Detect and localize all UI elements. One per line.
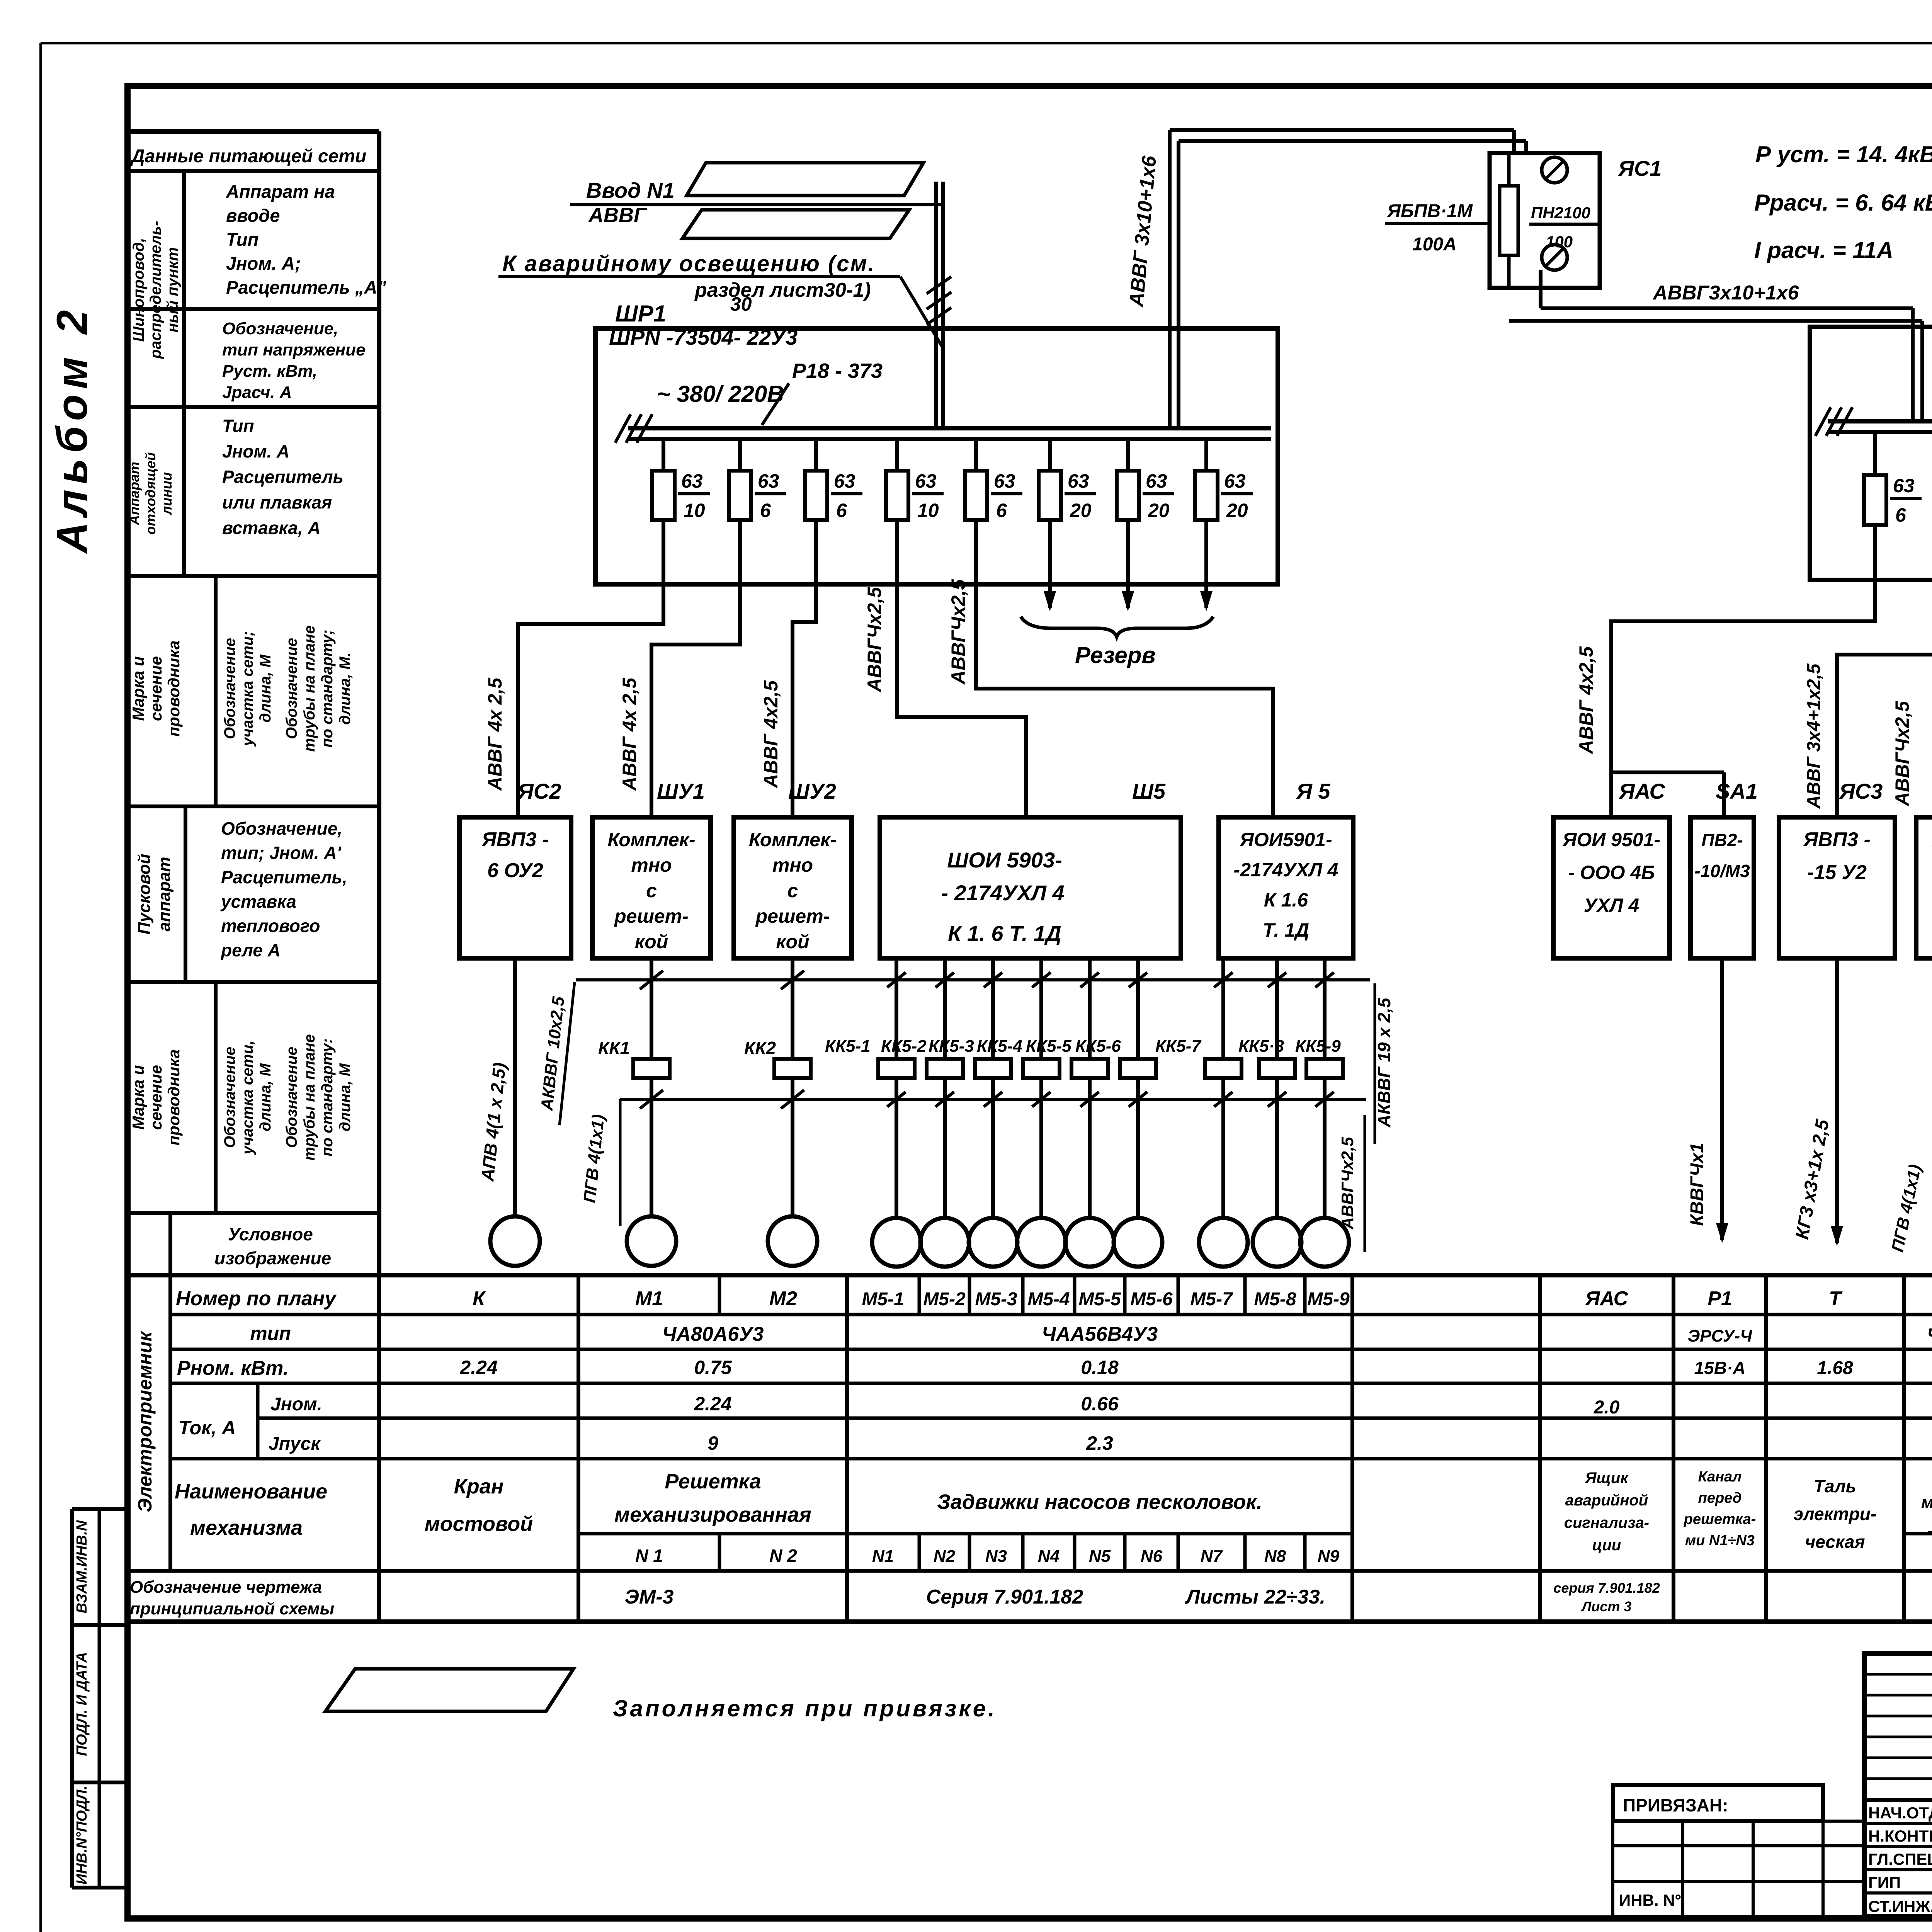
svg-text:КК5-6: КК5-6 bbox=[1075, 1037, 1121, 1056]
svg-text:изображение: изображение bbox=[214, 1248, 331, 1268]
svg-text:АВВГЧх2,5: АВВГЧх2,5 bbox=[947, 579, 969, 685]
svg-text:Обозначение чертежа: Обозначение чертежа bbox=[130, 1578, 322, 1597]
svg-text:Обозначение: Обозначение bbox=[283, 638, 300, 739]
svg-text:20: 20 bbox=[1148, 500, 1170, 521]
svg-text:Т. 1Д: Т. 1Д bbox=[1263, 919, 1309, 941]
svg-text:ЧАА56В4У3: ЧАА56В4У3 bbox=[1042, 1323, 1158, 1345]
svg-text:М5-8: М5-8 bbox=[1254, 1289, 1296, 1310]
svg-text:30: 30 bbox=[730, 293, 752, 315]
svg-text:Марка и: Марка и bbox=[129, 1065, 147, 1130]
svg-text:Условное: Условное bbox=[228, 1224, 313, 1244]
svg-text:мостовой: мостовой bbox=[425, 1512, 533, 1536]
svg-text:ИНВ.N°ПОДЛ.: ИНВ.N°ПОДЛ. bbox=[74, 1786, 90, 1884]
svg-text:М5-6: М5-6 bbox=[1130, 1289, 1173, 1310]
svg-text:Марка и: Марка и bbox=[129, 656, 147, 721]
svg-text:6: 6 bbox=[760, 500, 771, 521]
svg-text:0.66: 0.66 bbox=[1081, 1393, 1119, 1415]
svg-text:Расцепитель,: Расцепитель, bbox=[221, 867, 347, 887]
svg-text:-10/М3: -10/М3 bbox=[1694, 861, 1750, 881]
svg-text:Серия 7.901.182: Серия 7.901.182 bbox=[926, 1586, 1083, 1608]
svg-text:Канал: Канал bbox=[1698, 1469, 1742, 1485]
svg-text:ЯС3: ЯС3 bbox=[1838, 779, 1883, 803]
svg-text:100А: 100А bbox=[1412, 234, 1457, 255]
svg-text:ЯОИ5901-: ЯОИ5901- bbox=[1239, 829, 1332, 850]
svg-text:ЧА80А 6У3: ЧА80А 6У3 bbox=[1927, 1325, 1932, 1345]
svg-text:63: 63 bbox=[681, 470, 703, 492]
svg-text:Тип: Тип bbox=[226, 229, 259, 250]
svg-text:ПВ2-: ПВ2- bbox=[1701, 830, 1743, 850]
svg-text:с: с bbox=[646, 880, 657, 901]
svg-text:Обозначение: Обозначение bbox=[283, 1047, 300, 1148]
svg-text:Jрасч. А: Jрасч. А bbox=[222, 383, 292, 402]
svg-text:Ящик: Ящик bbox=[1585, 1469, 1629, 1486]
svg-text:Комплек-: Комплек- bbox=[749, 829, 837, 850]
svg-text:~ 380/ 220В: ~ 380/ 220В bbox=[657, 381, 784, 407]
svg-text:Т: Т bbox=[1829, 1287, 1843, 1310]
svg-text:Тип: Тип bbox=[222, 416, 254, 436]
svg-text:Номер по плану: Номер по плану bbox=[176, 1287, 337, 1310]
svg-text:63: 63 bbox=[1068, 470, 1089, 492]
svg-text:Рном. кВт.: Рном. кВт. bbox=[177, 1357, 289, 1379]
svg-text:проводника: проводника bbox=[165, 640, 183, 736]
svg-text:15В·А: 15В·А bbox=[1694, 1358, 1746, 1378]
svg-text:Р1: Р1 bbox=[1708, 1287, 1732, 1310]
svg-text:ЯБПВ·1М: ЯБПВ·1М bbox=[1386, 201, 1473, 221]
svg-text:М5-3: М5-3 bbox=[975, 1289, 1017, 1310]
svg-text:решетка-: решетка- bbox=[1684, 1511, 1756, 1527]
svg-text:тип; Jном. А': тип; Jном. А' bbox=[221, 843, 342, 863]
svg-text:М5-5: М5-5 bbox=[1078, 1289, 1121, 1310]
svg-text:10: 10 bbox=[917, 500, 939, 521]
svg-text:N6: N6 bbox=[1141, 1547, 1163, 1566]
svg-text:К аварийному освещению (см.: К аварийному освещению (см. bbox=[502, 251, 875, 276]
svg-text:по стандарту;: по стандарту; bbox=[319, 629, 336, 748]
svg-text:ПН2100: ПН2100 bbox=[1531, 204, 1590, 222]
svg-text:Альбом 2: Альбом 2 bbox=[48, 304, 96, 554]
svg-text:Таль: Таль bbox=[1814, 1476, 1856, 1496]
svg-text:УХЛ 4: УХЛ 4 bbox=[1584, 895, 1639, 916]
svg-text:Задвижки насосов песколовок.: Задвижки насосов песколовок. bbox=[937, 1490, 1262, 1514]
svg-text:20: 20 bbox=[1070, 500, 1092, 521]
svg-text:М5-4: М5-4 bbox=[1027, 1289, 1070, 1310]
svg-text:ШУ1: ШУ1 bbox=[657, 779, 705, 803]
svg-text:ческая: ческая bbox=[1805, 1532, 1865, 1552]
svg-text:Обозначение: Обозначение bbox=[221, 1047, 238, 1148]
svg-text:отходящей: отходящей bbox=[143, 452, 158, 534]
svg-text:Н.КОНТР: Н.КОНТР bbox=[1868, 1827, 1932, 1845]
svg-text:6 ОУ2: 6 ОУ2 bbox=[487, 859, 543, 882]
svg-text:Ш5: Ш5 bbox=[1132, 779, 1166, 803]
svg-text:ШРN -73504- 22У3: ШРN -73504- 22У3 bbox=[609, 325, 798, 349]
svg-text:реле А: реле А bbox=[220, 940, 281, 960]
svg-text:механизиро-: механизиро- bbox=[1921, 1493, 1932, 1512]
svg-text:Ток, А: Ток, А bbox=[179, 1417, 236, 1439]
svg-text:Аппарат на: Аппарат на bbox=[226, 181, 335, 202]
svg-text:6: 6 bbox=[996, 500, 1007, 521]
svg-text:кой: кой bbox=[776, 931, 809, 952]
svg-text:0.18: 0.18 bbox=[1081, 1357, 1119, 1378]
svg-text:по стандарту:: по стандарту: bbox=[319, 1038, 336, 1156]
svg-text:N9: N9 bbox=[1318, 1547, 1340, 1566]
svg-text:аппарат: аппарат bbox=[155, 857, 174, 931]
svg-text:63: 63 bbox=[834, 470, 855, 492]
svg-text:КВВГЧх1: КВВГЧх1 bbox=[1687, 1143, 1708, 1226]
svg-text:тип: тип bbox=[250, 1323, 291, 1344]
svg-text:К 1.6: К 1.6 bbox=[1264, 889, 1308, 911]
svg-text:ный пункт: ный пункт bbox=[164, 247, 181, 333]
svg-text:КК5-7: КК5-7 bbox=[1155, 1037, 1202, 1056]
svg-text:Обозначение,: Обозначение, bbox=[221, 818, 342, 838]
svg-text:М5-1: М5-1 bbox=[862, 1289, 904, 1310]
svg-text:6: 6 bbox=[836, 500, 847, 521]
svg-text:ШОИ 5903-: ШОИ 5903- bbox=[947, 848, 1062, 872]
svg-text:ГЛ.СПЕЦ.: ГЛ.СПЕЦ. bbox=[1868, 1850, 1932, 1868]
svg-text:длина, М: длина, М bbox=[257, 654, 274, 723]
svg-text:участка сети,: участка сети, bbox=[239, 1040, 256, 1155]
svg-text:ЯВП3 -: ЯВП3 - bbox=[1803, 828, 1871, 851]
svg-text:механизма: механизма bbox=[190, 1516, 303, 1539]
svg-text:Заполняется при привязке.: Заполняется при привязке. bbox=[613, 1696, 997, 1721]
svg-text:сечение: сечение bbox=[147, 1065, 165, 1130]
svg-text:Обозначение: Обозначение bbox=[221, 638, 238, 739]
svg-text:перед: перед bbox=[1698, 1490, 1742, 1506]
svg-text:АВВГ: АВВГ bbox=[588, 204, 648, 227]
svg-text:- ООО 4Б: - ООО 4Б bbox=[1568, 862, 1655, 883]
svg-text:ЯС2: ЯС2 bbox=[517, 779, 561, 803]
svg-text:63: 63 bbox=[1224, 470, 1246, 492]
svg-text:АВВГЧх2,5: АВВГЧх2,5 bbox=[1891, 701, 1913, 807]
svg-text:решет-: решет- bbox=[614, 905, 689, 927]
svg-text:ЯАС: ЯАС bbox=[1585, 1287, 1629, 1310]
svg-text:63: 63 bbox=[915, 470, 937, 492]
svg-text:ГИП: ГИП bbox=[1868, 1873, 1901, 1891]
svg-text:-2174УХЛ 4: -2174УХЛ 4 bbox=[1233, 859, 1338, 881]
svg-text:тно: тно bbox=[631, 854, 672, 876]
svg-text:проводника: проводника bbox=[165, 1049, 183, 1145]
svg-text:ИНВ. N°: ИНВ. N° bbox=[1619, 1891, 1681, 1909]
svg-text:Jном. А: Jном. А bbox=[222, 441, 289, 461]
svg-text:ми N1÷N3: ми N1÷N3 bbox=[1685, 1532, 1755, 1549]
svg-text:или плавкая: или плавкая bbox=[222, 492, 332, 512]
svg-text:Р18 - 373: Р18 - 373 bbox=[792, 359, 883, 383]
svg-text:трубы на плане: трубы на плане bbox=[301, 625, 318, 752]
svg-text:АВВГЧх2,5: АВВГЧх2,5 bbox=[864, 587, 885, 693]
svg-text:N 1: N 1 bbox=[635, 1546, 663, 1566]
svg-text:63: 63 bbox=[758, 470, 779, 492]
svg-text:SA1: SA1 bbox=[1716, 779, 1758, 803]
svg-text:ВЗАМ.ИНВ.N: ВЗАМ.ИНВ.N bbox=[74, 1520, 90, 1613]
svg-text:вставка, А: вставка, А bbox=[222, 518, 321, 538]
svg-text:ЧА80А6У3: ЧА80А6У3 bbox=[662, 1323, 764, 1345]
svg-text:ШУ2: ШУ2 bbox=[788, 779, 836, 803]
svg-text:сечение: сечение bbox=[147, 656, 165, 721]
svg-text:Я 5: Я 5 bbox=[1296, 779, 1330, 803]
svg-text:Комплек-: Комплек- bbox=[607, 829, 695, 850]
svg-text:длина, М: длина, М bbox=[337, 1063, 354, 1131]
svg-text:N8: N8 bbox=[1264, 1547, 1286, 1566]
svg-text:ПРИВЯЗАН:: ПРИВЯЗАН: bbox=[1623, 1795, 1728, 1815]
svg-text:10: 10 bbox=[684, 500, 705, 521]
svg-text:КК5-4: КК5-4 bbox=[977, 1037, 1022, 1056]
svg-text:М5-9: М5-9 bbox=[1307, 1289, 1350, 1310]
svg-text:М2: М2 bbox=[769, 1287, 797, 1310]
svg-text:Jпуск: Jпуск bbox=[269, 1434, 321, 1454]
svg-text:длина, М: длина, М bbox=[257, 1063, 274, 1131]
svg-text:Руст. кВт,: Руст. кВт, bbox=[222, 362, 317, 381]
svg-text:2.3: 2.3 bbox=[1086, 1432, 1113, 1454]
svg-text:серия 7.901.182: серия 7.901.182 bbox=[1553, 1580, 1660, 1596]
svg-text:Данные питающей сети: Данные питающей сети bbox=[130, 146, 366, 167]
svg-text:механизированная: механизированная bbox=[614, 1503, 811, 1526]
svg-text:КК5-3: КК5-3 bbox=[929, 1037, 974, 1056]
svg-text:ЭРСУ-Ч: ЭРСУ-Ч bbox=[1688, 1327, 1753, 1345]
svg-text:ШР1: ШР1 bbox=[615, 301, 666, 327]
svg-text:Пусковой: Пусковой bbox=[135, 854, 154, 934]
svg-text:аварийной: аварийной bbox=[1565, 1492, 1648, 1509]
svg-text:АВВГ 3х4+1х2,5: АВВГ 3х4+1х2,5 bbox=[1804, 663, 1824, 809]
svg-text:АВВГ3х10+1х6: АВВГ3х10+1х6 bbox=[1652, 282, 1799, 304]
svg-text:ции: ции bbox=[1592, 1537, 1621, 1554]
svg-text:Решетка: Решетка bbox=[665, 1470, 761, 1493]
svg-text:линии: линии bbox=[159, 472, 175, 515]
svg-text:КК1: КК1 bbox=[598, 1038, 630, 1058]
svg-text:Jном. А;: Jном. А; bbox=[226, 253, 301, 274]
svg-text:ЯАС: ЯАС bbox=[1618, 779, 1665, 803]
svg-text:Расцепитель „А”: Расцепитель „А” bbox=[226, 277, 386, 298]
svg-text:Наименование: Наименование bbox=[175, 1480, 327, 1503]
svg-text:кой: кой bbox=[635, 931, 668, 952]
svg-text:- 2174УХЛ 4: - 2174УХЛ 4 bbox=[941, 881, 1064, 905]
svg-text:электри-: электри- bbox=[1794, 1504, 1877, 1524]
svg-text:КК2: КК2 bbox=[744, 1038, 776, 1058]
svg-text:1.68: 1.68 bbox=[1817, 1358, 1853, 1378]
svg-text:Аппарат: Аппарат bbox=[126, 462, 142, 526]
svg-text:АВВГ 4х2,5: АВВГ 4х2,5 bbox=[1575, 646, 1597, 755]
svg-text:6: 6 bbox=[1895, 504, 1906, 526]
svg-text:раздел лист30-1): раздел лист30-1) bbox=[694, 279, 871, 301]
svg-text:АВВГ 4х2,5: АВВГ 4х2,5 bbox=[760, 680, 782, 789]
svg-text:АВВГ 4х 2,5: АВВГ 4х 2,5 bbox=[484, 677, 506, 791]
svg-text:Обозначение,: Обозначение, bbox=[222, 319, 338, 338]
svg-text:Листы 22÷33.: Листы 22÷33. bbox=[1185, 1586, 1325, 1608]
svg-text:принципиальной схемы: принципиальной схемы bbox=[130, 1599, 334, 1618]
svg-text:Кран: Кран bbox=[454, 1475, 504, 1498]
svg-text:КК5-9: КК5-9 bbox=[1295, 1037, 1341, 1056]
svg-text:АВВГ 4х 2,5: АВВГ 4х 2,5 bbox=[619, 677, 640, 791]
svg-text:уставка: уставка bbox=[220, 891, 296, 912]
svg-text:Резерв: Резерв bbox=[1075, 642, 1156, 668]
svg-text:АВВГЧх2,5: АВВГЧх2,5 bbox=[1338, 1137, 1357, 1230]
svg-text:тип напряжение: тип напряжение bbox=[222, 340, 366, 359]
svg-text:Лист 3: Лист 3 bbox=[1581, 1599, 1632, 1614]
svg-text:длина, М.: длина, М. bbox=[337, 652, 354, 724]
svg-text:2.24: 2.24 bbox=[459, 1357, 497, 1378]
svg-text:решет-: решет- bbox=[755, 905, 830, 927]
svg-text:100: 100 bbox=[1546, 233, 1573, 251]
svg-text:КК5·8: КК5·8 bbox=[1238, 1037, 1284, 1056]
svg-text:Расцепитель: Расцепитель bbox=[222, 467, 344, 487]
svg-text:2.0: 2.0 bbox=[1594, 1397, 1620, 1418]
svg-text:0.75: 0.75 bbox=[694, 1357, 732, 1378]
svg-text:трубы на плане: трубы на плане bbox=[301, 1034, 318, 1160]
svg-text:КК5-1: КК5-1 bbox=[825, 1037, 871, 1056]
svg-text:-15 У2: -15 У2 bbox=[1807, 861, 1867, 884]
svg-text:N 2: N 2 bbox=[769, 1546, 797, 1566]
svg-text:участка сети;: участка сети; bbox=[239, 631, 256, 747]
svg-text:сигнализа-: сигнализа- bbox=[1564, 1514, 1649, 1531]
svg-text:63: 63 bbox=[1893, 475, 1915, 497]
svg-text:9: 9 bbox=[707, 1432, 718, 1454]
svg-text:63: 63 bbox=[994, 470, 1015, 492]
svg-text:Шинопровод,: Шинопровод, bbox=[130, 238, 147, 342]
svg-text:N7: N7 bbox=[1201, 1547, 1223, 1566]
svg-text:N4: N4 bbox=[1038, 1547, 1060, 1566]
svg-text:N2: N2 bbox=[934, 1547, 956, 1566]
svg-text:К: К bbox=[473, 1287, 486, 1310]
svg-text:ЯОИ 9501-: ЯОИ 9501- bbox=[1562, 829, 1660, 850]
svg-text:Ррасч. = 6. 64 кВт.: Ррасч. = 6. 64 кВт. bbox=[1754, 190, 1932, 216]
svg-text:тно: тно bbox=[772, 854, 813, 876]
svg-text:КК5-2: КК5-2 bbox=[881, 1037, 927, 1056]
svg-text:Р уст. = 14. 4кВт.: Р уст. = 14. 4кВт. bbox=[1755, 141, 1932, 167]
svg-text:М5-7: М5-7 bbox=[1190, 1289, 1233, 1310]
svg-text:СТ.ИНЖ.: СТ.ИНЖ. bbox=[1868, 1897, 1932, 1915]
svg-text:63: 63 bbox=[1146, 470, 1167, 492]
svg-text:Jном.: Jном. bbox=[270, 1394, 322, 1415]
svg-text:вводе: вводе bbox=[226, 205, 280, 226]
svg-text:ЯВП3 -: ЯВП3 - bbox=[481, 828, 549, 851]
svg-text:М1: М1 bbox=[635, 1287, 663, 1310]
svg-text:АКВВГ 19 х 2,5: АКВВГ 19 х 2,5 bbox=[1374, 997, 1394, 1128]
svg-text:N5: N5 bbox=[1089, 1547, 1111, 1566]
svg-text:I расч. = 11А: I расч. = 11А bbox=[1754, 237, 1893, 263]
svg-text:20: 20 bbox=[1226, 500, 1248, 521]
svg-text:К 1. 6 Т. 1Д: К 1. 6 Т. 1Д bbox=[948, 921, 1061, 946]
svg-text:теплового: теплового bbox=[221, 916, 320, 936]
svg-text:с: с bbox=[787, 880, 798, 901]
svg-text:ПОДЛ. И ДАТА: ПОДЛ. И ДАТА bbox=[74, 1652, 90, 1756]
svg-text:распределитель-: распределитель- bbox=[147, 221, 164, 359]
svg-text:Ввод N1: Ввод N1 bbox=[586, 178, 675, 202]
svg-text:ЭМ-3: ЭМ-3 bbox=[625, 1586, 674, 1608]
svg-text:2.24: 2.24 bbox=[694, 1393, 731, 1415]
svg-text:ЯС1: ЯС1 bbox=[1617, 156, 1662, 180]
svg-text:КК5-5: КК5-5 bbox=[1026, 1037, 1071, 1056]
svg-text:М5-2: М5-2 bbox=[923, 1289, 966, 1310]
svg-text:N1: N1 bbox=[872, 1547, 894, 1566]
svg-text:N3: N3 bbox=[985, 1547, 1007, 1566]
svg-text:Электроприемник: Электроприемник bbox=[134, 1331, 156, 1512]
svg-text:НАЧ.ОТД: НАЧ.ОТД bbox=[1868, 1804, 1932, 1822]
